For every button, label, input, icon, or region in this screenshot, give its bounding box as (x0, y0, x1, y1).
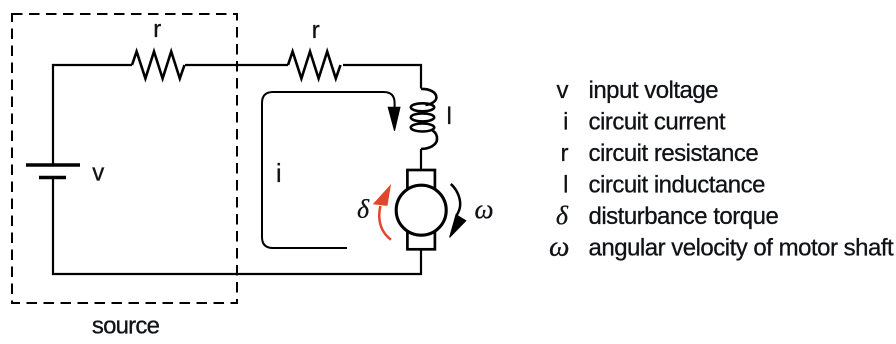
svg-text:v: v (557, 77, 569, 104)
svg-text:source: source (92, 313, 160, 340)
svg-text:disturbance torque: disturbance torque (589, 203, 779, 230)
svg-text:input voltage: input voltage (589, 77, 719, 104)
svg-text:ω: ω (549, 230, 569, 262)
svg-text:circuit inductance: circuit inductance (589, 171, 766, 198)
svg-text:δ: δ (556, 201, 569, 230)
svg-text:r: r (312, 17, 320, 44)
svg-text:circuit resistance: circuit resistance (589, 140, 759, 167)
svg-text:l: l (563, 171, 568, 198)
svg-text:l: l (447, 103, 452, 130)
svg-text:circuit current: circuit current (589, 108, 726, 135)
svg-text:i: i (276, 158, 281, 188)
svg-text:δ: δ (357, 195, 370, 224)
svg-text:r: r (153, 16, 161, 43)
svg-text:angular velocity of motor shaf: angular velocity of motor shaft (589, 234, 894, 261)
svg-text:i: i (563, 108, 568, 135)
svg-text:ω: ω (474, 194, 493, 224)
svg-text:v: v (92, 160, 104, 187)
svg-text:r: r (561, 140, 569, 167)
